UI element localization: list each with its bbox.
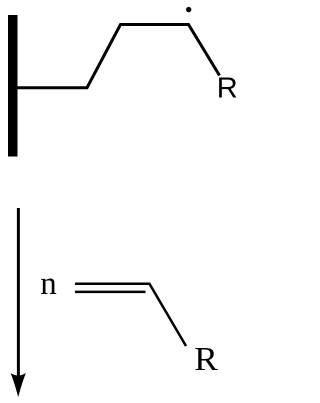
svg-text:R: R: [194, 341, 218, 378]
svg-text:n: n: [40, 266, 57, 302]
svg-text:R: R: [217, 73, 238, 105]
